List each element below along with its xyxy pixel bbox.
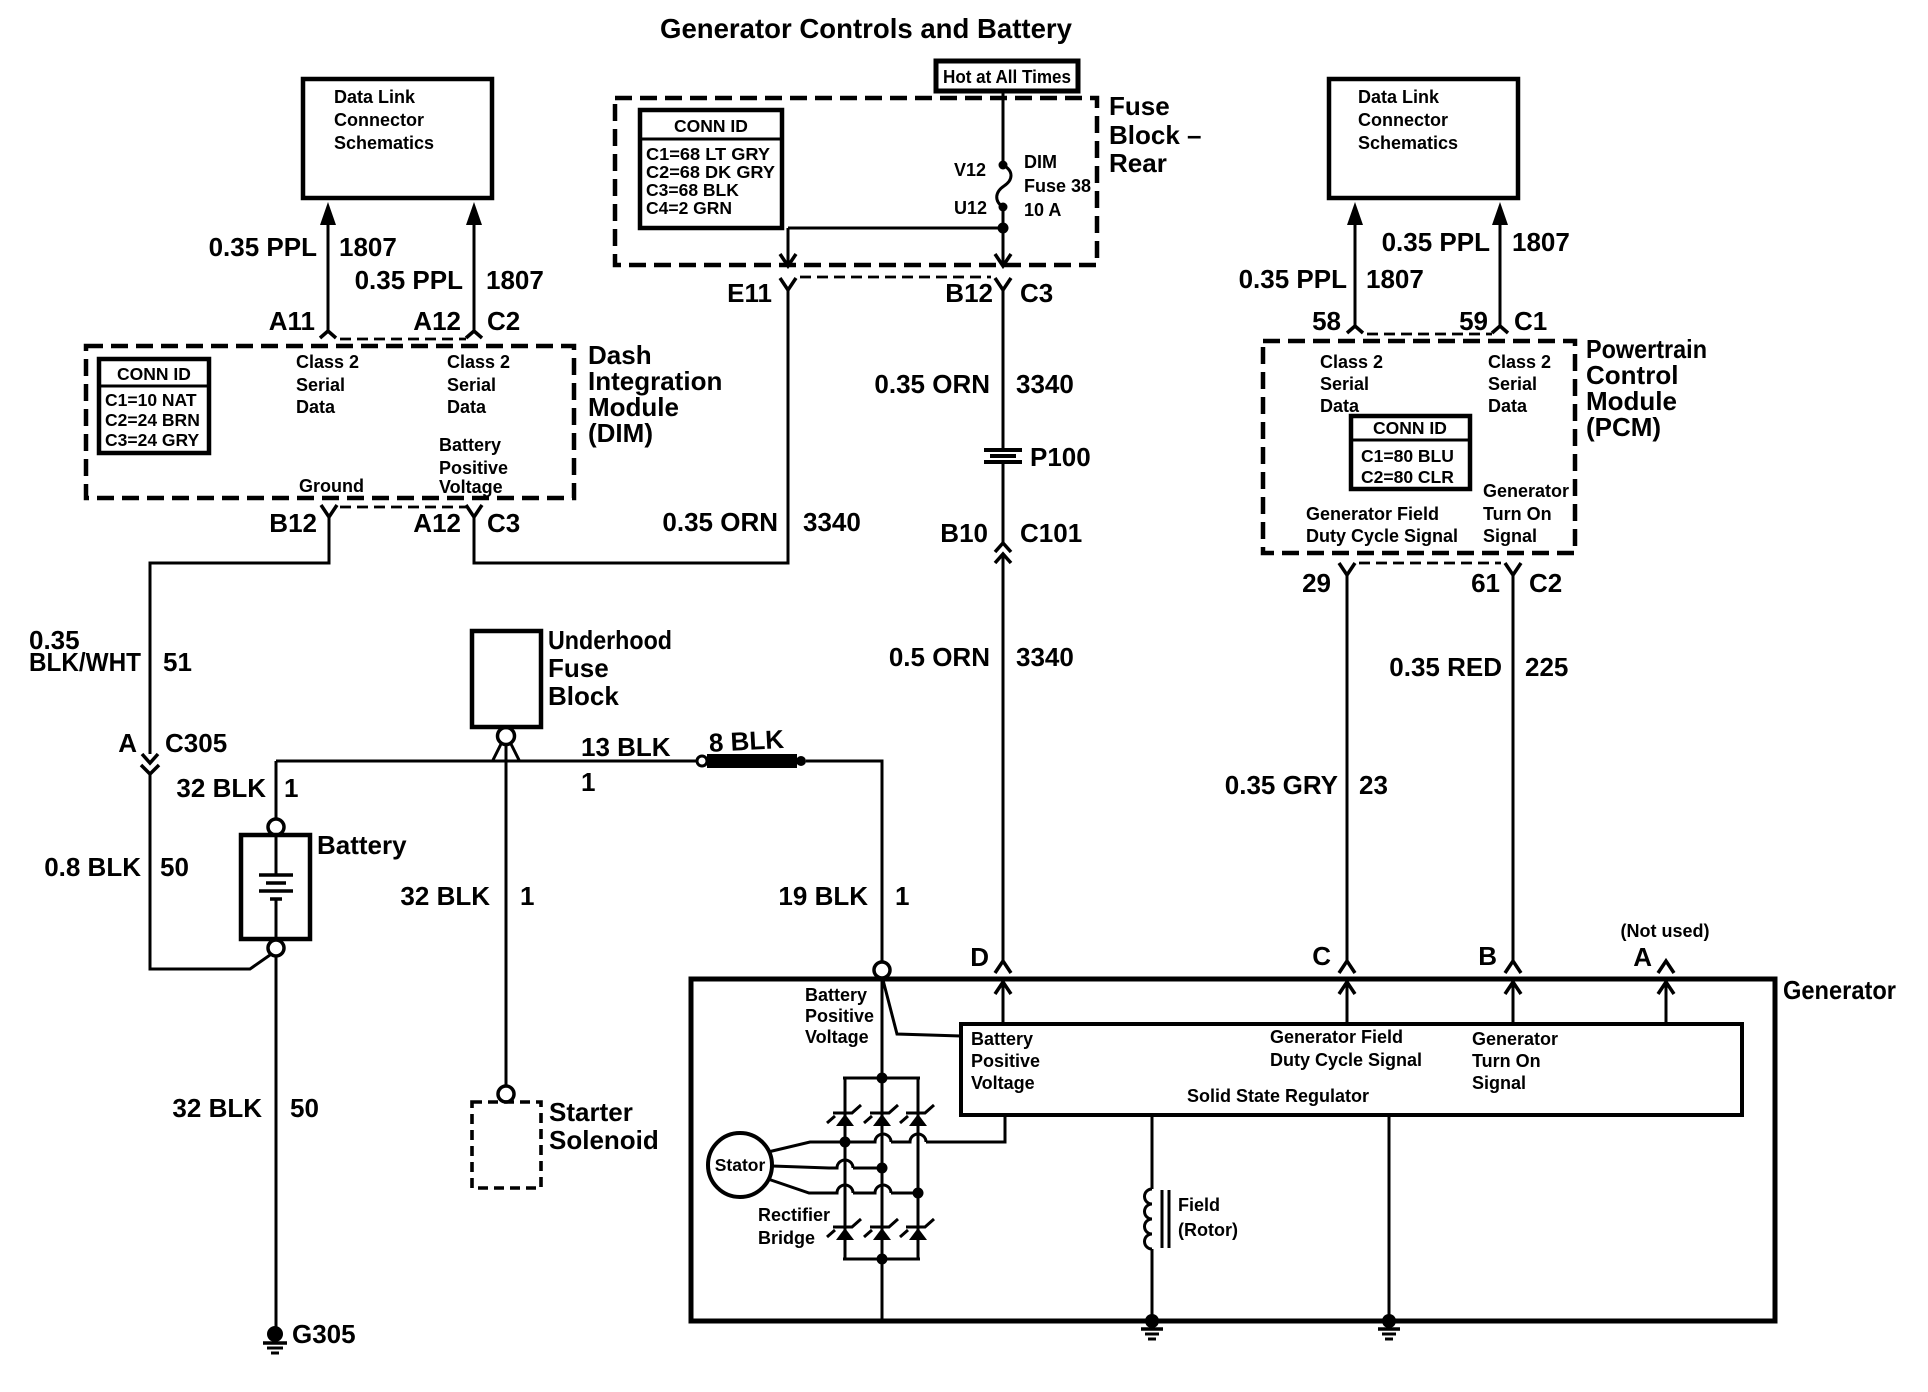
regulator label Battery Positive Voltage: [971, 1029, 1040, 1093]
svg-text:Data: Data: [1320, 396, 1360, 416]
svg-text:Serial: Serial: [447, 375, 496, 395]
svg-text:C3: C3: [487, 508, 520, 538]
label 0.35 ORN 3340 (E11 wire): [662, 507, 860, 537]
svg-text:Data: Data: [296, 397, 336, 417]
wire 0.35 PPL 1807 from DIM A11 to DLC (arrow): [320, 202, 336, 331]
terminal A12 C2: [413, 306, 520, 338]
label Field (Rotor): [1178, 1195, 1238, 1240]
stator: [708, 1133, 772, 1197]
svg-text:0.35 PPL: 0.35 PPL: [209, 232, 318, 262]
svg-text:0.35 PPL: 0.35 PPL: [355, 265, 464, 295]
grommet P100: [984, 442, 1091, 472]
svg-text:3340: 3340: [803, 507, 861, 537]
svg-text:8 BLK: 8 BLK: [708, 724, 785, 758]
svg-text:C2: C2: [487, 306, 520, 336]
svg-text:Fuse 38: Fuse 38: [1024, 176, 1091, 196]
svg-text:Data: Data: [447, 397, 487, 417]
svg-text:A11: A11: [269, 306, 315, 336]
svg-text:32 BLK: 32 BLK: [172, 1093, 262, 1123]
svg-text:Generator: Generator: [1783, 975, 1896, 1005]
svg-text:C: C: [1312, 941, 1331, 971]
svg-text:C1: C1: [1514, 306, 1547, 336]
wire fusible link to generator battery terminal: [806, 761, 882, 962]
svg-text:1: 1: [581, 767, 595, 797]
label Rectifier Bridge: [758, 1205, 830, 1248]
svg-text:Duty Cycle Signal: Duty Cycle Signal: [1306, 526, 1458, 546]
svg-text:Connector: Connector: [334, 110, 424, 130]
svg-text:59: 59: [1459, 306, 1488, 336]
svg-text:Bridge: Bridge: [758, 1228, 815, 1248]
svg-text:Voltage: Voltage: [805, 1027, 869, 1047]
label Dash Integration Module (DIM): [588, 340, 722, 448]
svg-text:C1=80 BLU: C1=80 BLU: [1361, 446, 1454, 466]
wire 0.35 PPL 1807 from PCM 59/C1 to DLC (arrow): [1492, 202, 1508, 326]
wire 0.35 PPL 1807 from PCM 58 to DLC (arrow): [1347, 202, 1363, 326]
svg-text:C2: C2: [1529, 568, 1562, 598]
diode D3: [900, 1105, 934, 1126]
svg-text:Schematics: Schematics: [1358, 133, 1458, 153]
box: Hot at All Times: [936, 61, 1078, 91]
svg-text:CONN ID: CONN ID: [674, 116, 748, 136]
svg-text:(Rotor): (Rotor): [1178, 1220, 1238, 1240]
ground bus wire (battery to fusible link): [276, 760, 698, 763]
box: Data Link Connector Schematics (left): [303, 79, 492, 198]
CONN ID table (Fuse Block): [640, 110, 782, 228]
connector interface line fuse block bottom: [800, 276, 991, 279]
svg-text:Signal: Signal: [1472, 1073, 1526, 1093]
wire E11 down and left to DIM A12/C3: [474, 290, 788, 563]
svg-text:Fuse: Fuse: [548, 653, 609, 683]
terminal A12 C3 (DIM bottom): [413, 505, 520, 538]
terminal 58: [1312, 306, 1363, 336]
terminal C: [1312, 941, 1355, 1024]
junction nodes (bridge): [840, 1073, 924, 1265]
box: Data Link Connector Schematics (right): [1329, 79, 1518, 198]
wire battery terminal to regulator: [883, 980, 961, 1036]
svg-text:Block: Block: [548, 681, 619, 711]
svg-text:0.5 ORN: 0.5 ORN: [889, 642, 990, 672]
pin label Class 2 Serial Data (A12): [447, 352, 510, 417]
svg-text:Field: Field: [1178, 1195, 1220, 1215]
terminal A (Not used): [1621, 921, 1710, 1024]
svg-text:23: 23: [1359, 770, 1388, 800]
regulator label Generator Turn On Signal: [1472, 1029, 1558, 1093]
svg-text:50: 50: [290, 1093, 319, 1123]
svg-text:Block –: Block –: [1109, 120, 1202, 150]
svg-text:CONN ID: CONN ID: [1373, 418, 1447, 438]
svg-text:Serial: Serial: [1320, 374, 1369, 394]
label 0.35 PPL 1807 (pin 59 wire): [1382, 227, 1570, 257]
module box: Fuse Block - Rear dashed: [615, 98, 1097, 265]
wire C101 down to generator D: [1002, 554, 1005, 961]
label 13 BLK 1: [581, 732, 671, 797]
field rotor coil: [1145, 1189, 1170, 1249]
svg-text:0.35 GRY: 0.35 GRY: [1225, 770, 1338, 800]
stator phase wire 1: [768, 1115, 1005, 1152]
svg-text:19 BLK: 19 BLK: [778, 881, 868, 911]
svg-text:Generator: Generator: [1483, 481, 1569, 501]
stator phase wire 3: [768, 1179, 918, 1193]
ground (field): [1141, 1314, 1163, 1339]
wire P100 to C101: [1002, 464, 1005, 543]
svg-text:29: 29: [1302, 568, 1331, 598]
ground G305: [263, 1319, 356, 1353]
svg-text:10 A: 10 A: [1024, 200, 1061, 220]
svg-text:0.8 BLK: 0.8 BLK: [44, 852, 141, 882]
svg-text:A: A: [118, 728, 137, 758]
CONN ID table (PCM): [1351, 416, 1470, 489]
svg-text:Rear: Rear: [1109, 148, 1167, 178]
terminal E11: [727, 278, 796, 308]
svg-text:58: 58: [1312, 306, 1341, 336]
svg-text:C101: C101: [1020, 518, 1082, 548]
diode D4: [827, 1219, 861, 1240]
label 0.35 PPL 1807 (pin 58 wire): [1239, 264, 1424, 294]
svg-text:1807: 1807: [339, 232, 397, 262]
svg-text:51: 51: [163, 647, 192, 677]
connector interface line PCM bottom: [1359, 562, 1501, 565]
label Fuse Block - Rear: [1109, 91, 1202, 178]
svg-text:1: 1: [895, 881, 909, 911]
diode D6: [900, 1219, 934, 1240]
wire fuse to junction: [1002, 207, 1005, 264]
svg-text:Generator Controls and Battery: Generator Controls and Battery: [660, 13, 1072, 44]
svg-text:Schematics: Schematics: [334, 133, 434, 153]
svg-text:Positive: Positive: [971, 1051, 1040, 1071]
wire DIM B12 down-left rail: [150, 517, 329, 754]
svg-text:Data: Data: [1488, 396, 1528, 416]
svg-text:A12: A12: [413, 306, 461, 336]
starter solenoid: [472, 1086, 659, 1188]
svg-text:CONN ID: CONN ID: [117, 364, 191, 384]
wire junction to E11 branch: [780, 228, 1003, 266]
svg-text:Underhood: Underhood: [548, 625, 672, 655]
diode D5: [864, 1219, 898, 1240]
label 32 BLK 50: [172, 1093, 319, 1123]
svg-text:0.35 PPL: 0.35 PPL: [1239, 264, 1348, 294]
module box: Powertrain Control Module (PCM) dashed: [1263, 341, 1575, 553]
terminal B12 C3 (fuse block bottom): [945, 278, 1053, 308]
pin label Battery Positive Voltage (DIM): [439, 435, 508, 497]
svg-text:1807: 1807: [1512, 227, 1570, 257]
terminal A11: [269, 306, 336, 338]
connector C101 B10: [940, 518, 1082, 563]
svg-text:Serial: Serial: [296, 375, 345, 395]
rectifier bridge frame: [843, 978, 920, 1321]
solid state regulator box: [961, 1024, 1742, 1115]
svg-text:Rectifier: Rectifier: [758, 1205, 830, 1225]
svg-text:Fuse: Fuse: [1109, 91, 1170, 121]
generator box: [691, 979, 1775, 1321]
pin label Class 2 Serial Data (A11): [296, 352, 359, 417]
label 32 BLK 1 (starter wire): [400, 881, 534, 911]
svg-text:P100: P100: [1030, 442, 1091, 472]
box: Underhood Fuse Block: [472, 625, 672, 727]
arrow into B12 C3: [995, 254, 1011, 266]
connector C305 terminal A: [118, 728, 227, 774]
svg-text:Solid State Regulator: Solid State Regulator: [1187, 1086, 1369, 1106]
svg-text:3340: 3340: [1016, 369, 1074, 399]
svg-text:0.35 ORN: 0.35 ORN: [874, 369, 990, 399]
terminal 61 C2: [1471, 563, 1562, 598]
svg-text:Signal: Signal: [1483, 526, 1537, 546]
svg-text:DIM: DIM: [1024, 152, 1057, 172]
svg-text:Connector: Connector: [1358, 110, 1448, 130]
svg-text:C1=10 NAT: C1=10 NAT: [105, 390, 197, 410]
label 0.35 PPL 1807 (A11 wire): [209, 232, 397, 262]
svg-text:Solenoid: Solenoid: [549, 1125, 659, 1155]
svg-text:D: D: [970, 942, 989, 972]
fuse terminal labels V12 U12: [954, 160, 987, 218]
svg-text:(DIM): (DIM): [588, 418, 653, 448]
svg-text:Class 2: Class 2: [296, 352, 359, 372]
svg-text:Positive: Positive: [439, 458, 508, 478]
pin label Class 2 Serial Data (59): [1488, 352, 1551, 416]
svg-text:C4=2 GRN: C4=2 GRN: [646, 198, 732, 218]
label 0.35 RED 225: [1389, 652, 1568, 682]
terminal 59 C1: [1459, 306, 1547, 336]
svg-text:Ground: Ground: [299, 476, 364, 496]
svg-text:A12: A12: [413, 508, 461, 538]
svg-text:1807: 1807: [486, 265, 544, 295]
fusible link 8 BLK: [697, 724, 806, 768]
ground (regulator): [1378, 1314, 1400, 1339]
svg-text:B: B: [1478, 941, 1497, 971]
svg-text:Data Link: Data Link: [1358, 87, 1440, 107]
label 0.35 BLK/WHT 51: [29, 625, 192, 677]
svg-text:0.35 RED: 0.35 RED: [1389, 652, 1502, 682]
label 19 BLK 1: [778, 881, 909, 911]
svg-text:Stator: Stator: [715, 1155, 766, 1175]
svg-text:Voltage: Voltage: [971, 1073, 1035, 1093]
svg-text:3340: 3340: [1016, 642, 1074, 672]
svg-text:1: 1: [284, 773, 298, 803]
svg-text:Data Link: Data Link: [334, 87, 416, 107]
label 0.35 PPL 1807 (A12 wire): [355, 265, 544, 295]
svg-text:C3: C3: [1020, 278, 1053, 308]
battery: [241, 819, 310, 956]
svg-text:1807: 1807: [1366, 264, 1424, 294]
svg-text:Turn On: Turn On: [1472, 1051, 1541, 1071]
svg-text:C3=68 BLK: C3=68 BLK: [646, 180, 739, 200]
svg-text:G305: G305: [292, 1319, 356, 1349]
svg-text:BLK/WHT: BLK/WHT: [29, 647, 141, 677]
wire 0.35 PPL 1807 from DIM A12/C2 to DLC (arrow): [466, 202, 482, 331]
svg-text:C2=68 DK GRY: C2=68 DK GRY: [646, 162, 775, 182]
stator phase wire 2: [772, 1160, 883, 1168]
wire from Hot at All Times into fuse block: [1002, 91, 1005, 165]
label 0.8 BLK 50: [44, 852, 189, 882]
connector interface line PCM top: [1367, 333, 1492, 336]
svg-text:B10: B10: [940, 518, 988, 548]
generator battery terminal circle: [874, 962, 890, 978]
svg-text:C305: C305: [165, 728, 227, 758]
svg-text:Battery: Battery: [805, 985, 867, 1005]
svg-text:0.35 ORN: 0.35 ORN: [662, 507, 778, 537]
diode D1: [827, 1105, 861, 1126]
terminal B: [1478, 941, 1521, 1024]
module box: Dash Integration Module (DIM) dashed: [86, 346, 574, 498]
svg-text:1: 1: [520, 881, 534, 911]
diode D2: [864, 1105, 898, 1126]
svg-text:Battery: Battery: [439, 435, 501, 455]
svg-text:61: 61: [1471, 568, 1500, 598]
svg-text:50: 50: [160, 852, 189, 882]
label 0.5 ORN 3340: [889, 642, 1074, 672]
underhood fuse block terminal fork: [493, 728, 519, 761]
label 0.35 ORN 3340 (main wire): [874, 369, 1073, 399]
svg-text:Generator: Generator: [1472, 1029, 1558, 1049]
pin label Generator Field Duty Cycle Signal (PCM): [1306, 504, 1458, 546]
svg-text:Serial: Serial: [1488, 374, 1537, 394]
wire field coil to generator ground: [1151, 1249, 1154, 1321]
svg-text:Duty Cycle Signal: Duty Cycle Signal: [1270, 1050, 1422, 1070]
svg-text:B12: B12: [945, 278, 993, 308]
wire regulator to generator ground 2: [1388, 1115, 1391, 1321]
wire PCM 61/C2 to generator B: [1512, 575, 1515, 961]
junction node: [998, 223, 1009, 234]
wire PCM 29 to generator C: [1346, 575, 1349, 961]
wire underhood fuse block to starter solenoid: [505, 745, 508, 1085]
svg-text:Positive: Positive: [805, 1006, 874, 1026]
connector interface line DIM bottom: [340, 506, 466, 509]
svg-text:13 BLK: 13 BLK: [581, 732, 671, 762]
svg-text:Battery: Battery: [971, 1029, 1033, 1049]
regulator label Generator Field Duty Cycle Signal: [1270, 1027, 1422, 1070]
svg-text:C3=24 GRY: C3=24 GRY: [105, 430, 200, 450]
svg-text:C2=24 BRN: C2=24 BRN: [105, 410, 200, 430]
svg-text:C2=80 CLR: C2=80 CLR: [1361, 467, 1454, 487]
wire battery positive to bus corner: [275, 761, 278, 819]
terminal B12 (DIM bottom): [269, 505, 337, 538]
wire C305 down to battery negative joint: [150, 774, 270, 969]
svg-text:Hot at All Times: Hot at All Times: [943, 67, 1071, 87]
svg-text:E11: E11: [727, 278, 772, 308]
svg-text:225: 225: [1525, 652, 1568, 682]
svg-text:Voltage: Voltage: [439, 477, 503, 497]
wire regulator to field coil: [1151, 1115, 1154, 1189]
svg-text:32 BLK: 32 BLK: [176, 773, 266, 803]
svg-text:A: A: [1633, 942, 1652, 972]
pin label Class 2 Serial Data (58): [1320, 352, 1383, 416]
svg-text:0.35 PPL: 0.35 PPL: [1382, 227, 1491, 257]
svg-text:Battery: Battery: [317, 830, 407, 860]
svg-text:Starter: Starter: [549, 1097, 633, 1127]
svg-text:Generator Field: Generator Field: [1270, 1027, 1403, 1047]
svg-text:V12: V12: [954, 160, 986, 180]
svg-text:Generator Field: Generator Field: [1306, 504, 1439, 524]
CONN ID table (DIM): [99, 359, 209, 453]
connector interface line DIM top: [340, 338, 466, 341]
wire B12/C3 down to P100: [1002, 290, 1005, 448]
svg-text:(PCM): (PCM): [1586, 412, 1661, 442]
wire battery negative to G305: [275, 956, 278, 1327]
fuse value label DIM Fuse 38 10 A: [1024, 152, 1091, 220]
label 32 BLK 1 (battery wire): [176, 773, 298, 803]
svg-text:B12: B12: [269, 508, 317, 538]
svg-text:Class 2: Class 2: [1488, 352, 1551, 372]
svg-text:U12: U12: [954, 198, 987, 218]
svg-text:Class 2: Class 2: [1320, 352, 1383, 372]
label 0.35 GRY 23: [1225, 770, 1388, 800]
label Powertrain Control Module (PCM): [1586, 334, 1707, 442]
svg-text:C1=68 LT GRY: C1=68 LT GRY: [646, 144, 770, 164]
svg-text:32 BLK: 32 BLK: [400, 881, 490, 911]
pin label Generator Turn On Signal (PCM): [1483, 481, 1569, 546]
terminal 29: [1302, 563, 1355, 598]
pin label Battery Positive Voltage (generator): [805, 985, 874, 1047]
svg-text:(Not used): (Not used): [1621, 921, 1710, 941]
fuse DIM Fuse 38 10 A: [997, 161, 1011, 212]
svg-text:Turn On: Turn On: [1483, 504, 1552, 524]
terminal D: [970, 942, 1011, 1024]
svg-text:Class 2: Class 2: [447, 352, 510, 372]
